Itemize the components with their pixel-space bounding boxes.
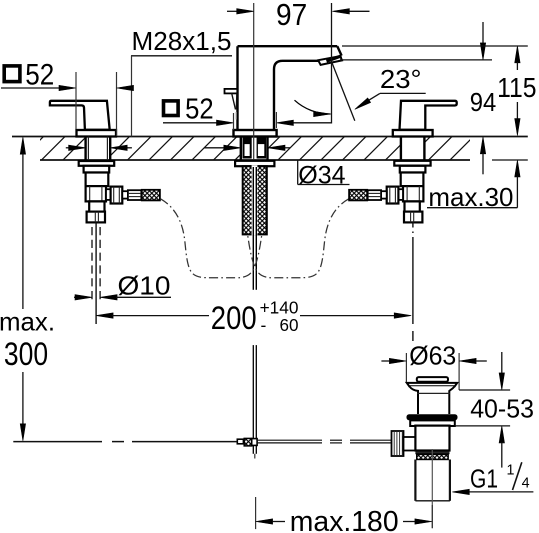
- svg-text:94: 94: [470, 89, 497, 117]
- svg-text:max.: max.: [0, 307, 55, 337]
- svg-text:M28x1,5: M28x1,5: [132, 28, 232, 56]
- svg-text:Ø10: Ø10: [118, 270, 171, 300]
- svg-text:60: 60: [280, 315, 299, 335]
- svg-text:300: 300: [4, 336, 48, 372]
- svg-text:G1: G1: [470, 464, 498, 494]
- svg-text:-: -: [261, 315, 267, 335]
- svg-text:97: 97: [276, 0, 307, 32]
- svg-text:1: 1: [507, 462, 515, 478]
- svg-text:52: 52: [25, 58, 54, 91]
- svg-text:4: 4: [522, 476, 530, 492]
- svg-text:52: 52: [185, 93, 214, 125]
- svg-text:200: 200: [211, 300, 257, 336]
- svg-text:Ø63: Ø63: [409, 343, 456, 371]
- svg-text:40-53: 40-53: [470, 395, 534, 423]
- svg-text:max.180: max.180: [290, 506, 399, 533]
- svg-text:115: 115: [497, 72, 536, 103]
- svg-text:23°: 23°: [380, 64, 422, 94]
